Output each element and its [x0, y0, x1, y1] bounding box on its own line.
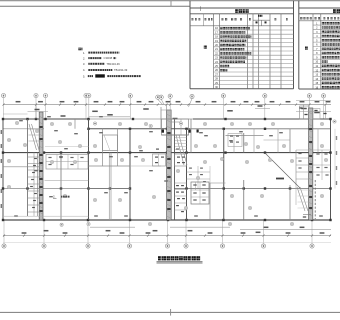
secondary dim segments below top dim — [89, 116, 131, 118]
top axis grid extension lines — [3, 98, 5, 119]
table 1 title — [235, 9, 238, 13]
small cells between core and x=210 (y166-190) — [187, 171, 211, 173]
interior wall x=243.75 — [243, 133, 245, 153]
right edge vertical dim marks — [336, 136, 337, 140]
right bay rooms — [264, 139, 291, 141]
table 1 category cell char — [204, 46, 207, 49]
left unit door/fixture marks — [34, 158, 37, 159]
wall x=296 lower extension — [295, 185, 297, 205]
right stair arrow + label — [303, 214, 311, 216]
notes heading — [78, 48, 80, 51]
interior wall x=27.5 — [27, 119, 29, 216]
filled column sections at core tops — [161, 130, 164, 133]
right core dashed wall — [314, 180, 316, 219]
right stair diagonals — [297, 187, 305, 211]
inner room rect mid bay — [103, 135, 118, 151]
note item 5 with highlighted box — [88, 75, 90, 77]
table 1 column lines — [213, 14, 215, 89]
right stair core shaft — [309, 108, 313, 220]
small dark tick labels scattered — [54, 130, 58, 131]
right core small rooms — [296, 157, 309, 159]
right outer wall — [330, 119, 332, 220]
interior wall x=61 — [60, 153, 62, 220]
column nodes on walls — [2, 118, 4, 120]
interior wall x=191 — [190, 119, 192, 153]
leader label — [276, 178, 284, 180]
middle core upper shaft rectangle — [162, 119, 189, 135]
axis stub x=36 — [35, 105, 37, 119]
secondary top line — [89, 128, 191, 130]
svg-text:5.: 5. — [83, 75, 86, 79]
table 1 body row lines — [214, 29, 294, 31]
top dimension numbers — [16, 101, 21, 103]
table 2 category cell char — [305, 47, 308, 50]
table 2 header line and texts — [299, 20, 340, 22]
component table 2 outer frame (cut off at right) — [298, 1, 300, 89]
thin dark wall beside left stair column — [37, 153, 39, 216]
bottom sheet border line — [0, 311, 340, 313]
svg-text:TB1334-36: TB1334-36 — [107, 62, 121, 66]
interior wall x=223.75 — [223, 129, 225, 220]
svg-text:4.: 4. — [83, 68, 86, 72]
table 2 body row lines — [313, 24, 340, 26]
svg-text:2.: 2. — [53, 195, 56, 199]
small tick below line B — [200, 6, 202, 11]
bottom dimension sub-segments — [90, 226, 135, 228]
interior wall x=290 — [289, 129, 291, 153]
middle core top stubs — [160, 107, 162, 129]
middle core partitions — [175, 182, 187, 184]
bottom axis grid extension lines — [3, 220, 5, 244]
top dimension ticks — [3, 104, 5, 106]
table 1 header tiny texts — [203, 14, 205, 26]
middle core lower cluster extra marks — [176, 185, 179, 186]
note item 4 text — [88, 69, 90, 71]
lower structural line y=188.5 — [3, 188, 89, 190]
left outer wall — [2, 119, 4, 220]
right-middle rooms — [226, 135, 264, 137]
top sheet border line B — [0, 5, 190, 7]
table 2 column lines — [312, 14, 314, 89]
interior wall x=186.5 — [186, 129, 188, 220]
interior wall x=102.5 — [102, 129, 104, 166]
top sheet border line A — [0, 0, 340, 2]
top dimension line — [3, 104, 331, 106]
axis stub x=325.5 — [325, 105, 327, 119]
faint lowest dimension line — [3, 241, 331, 243]
svg-text:C30/38: C30/38 — [104, 56, 113, 60]
svg-text:3.: 3. — [83, 62, 86, 66]
top axis circles — [1, 94, 5, 98]
table 2 title (partial) — [333, 9, 336, 13]
left core stair diagonals — [29, 124, 37, 150]
bottom dimension ticks — [3, 235, 5, 237]
door/opening marks embedded in core bands — [40, 126, 43, 128]
bottom wall line — [3, 219, 331, 221]
left unit room lines — [3, 166, 39, 168]
labels in top band — [92, 111, 98, 113]
right-middle inner box — [228, 134, 242, 147]
note item 1 text — [88, 52, 90, 54]
small rooms right of middle core — [191, 182, 209, 204]
interior wall x=117.5 — [117, 129, 119, 166]
table 1 two-tier header in count section — [253, 19, 270, 21]
top wall line — [3, 118, 89, 120]
scattered circled beam number labels — [15, 121, 18, 124]
note item 3 text — [88, 63, 89, 65]
svg-text:2.: 2. — [83, 56, 86, 60]
interior double wall x=110 — [108, 153, 110, 220]
mid-left room partitions — [45, 180, 89, 182]
interior wall x=130 — [129, 129, 131, 220]
middle structural line — [3, 152, 331, 154]
title underline — [157, 261, 203, 263]
left edge vertical dim marks — [1, 130, 2, 134]
left unit kitchen/bath cluster (x44-88) — [46, 155, 88, 170]
drawing title — [158, 256, 162, 260]
middle core second wall — [174, 119, 176, 220]
interior wall x=88.5 — [88, 119, 90, 220]
bottom axis circles — [2, 244, 6, 248]
left stair core shaft (gray band) — [39, 112, 43, 220]
middle stair core shaft — [167, 110, 172, 220]
bottom dimension line — [3, 235, 331, 237]
bottom dimension numbers — [22, 232, 27, 234]
component table 1 outer frame — [189, 1, 191, 89]
svg-text:TB1334-39: TB1334-39 — [114, 68, 128, 72]
bottom center fold tick — [170, 309, 172, 316]
long diagonal leader — [265, 153, 300, 188]
left unit partitions (stair/bath column x27.5-39) — [28, 156, 40, 158]
middle core stair treads — [175, 137, 187, 139]
note item 2 text — [88, 57, 89, 59]
middle core top box — [161, 110, 171, 119]
right core top boxes — [300, 106, 309, 119]
center fold tick on top border — [170, 1, 172, 7]
middle core kitchen/bath boxes — [153, 154, 166, 166]
svg-text:1.: 1. — [83, 51, 86, 55]
table 1 header bottom line — [190, 25, 294, 27]
stub wall x=75 — [74, 119, 76, 129]
extra top band dim segment left — [3, 113, 28, 115]
interior wall x=34 (stair side) — [33, 153, 35, 216]
